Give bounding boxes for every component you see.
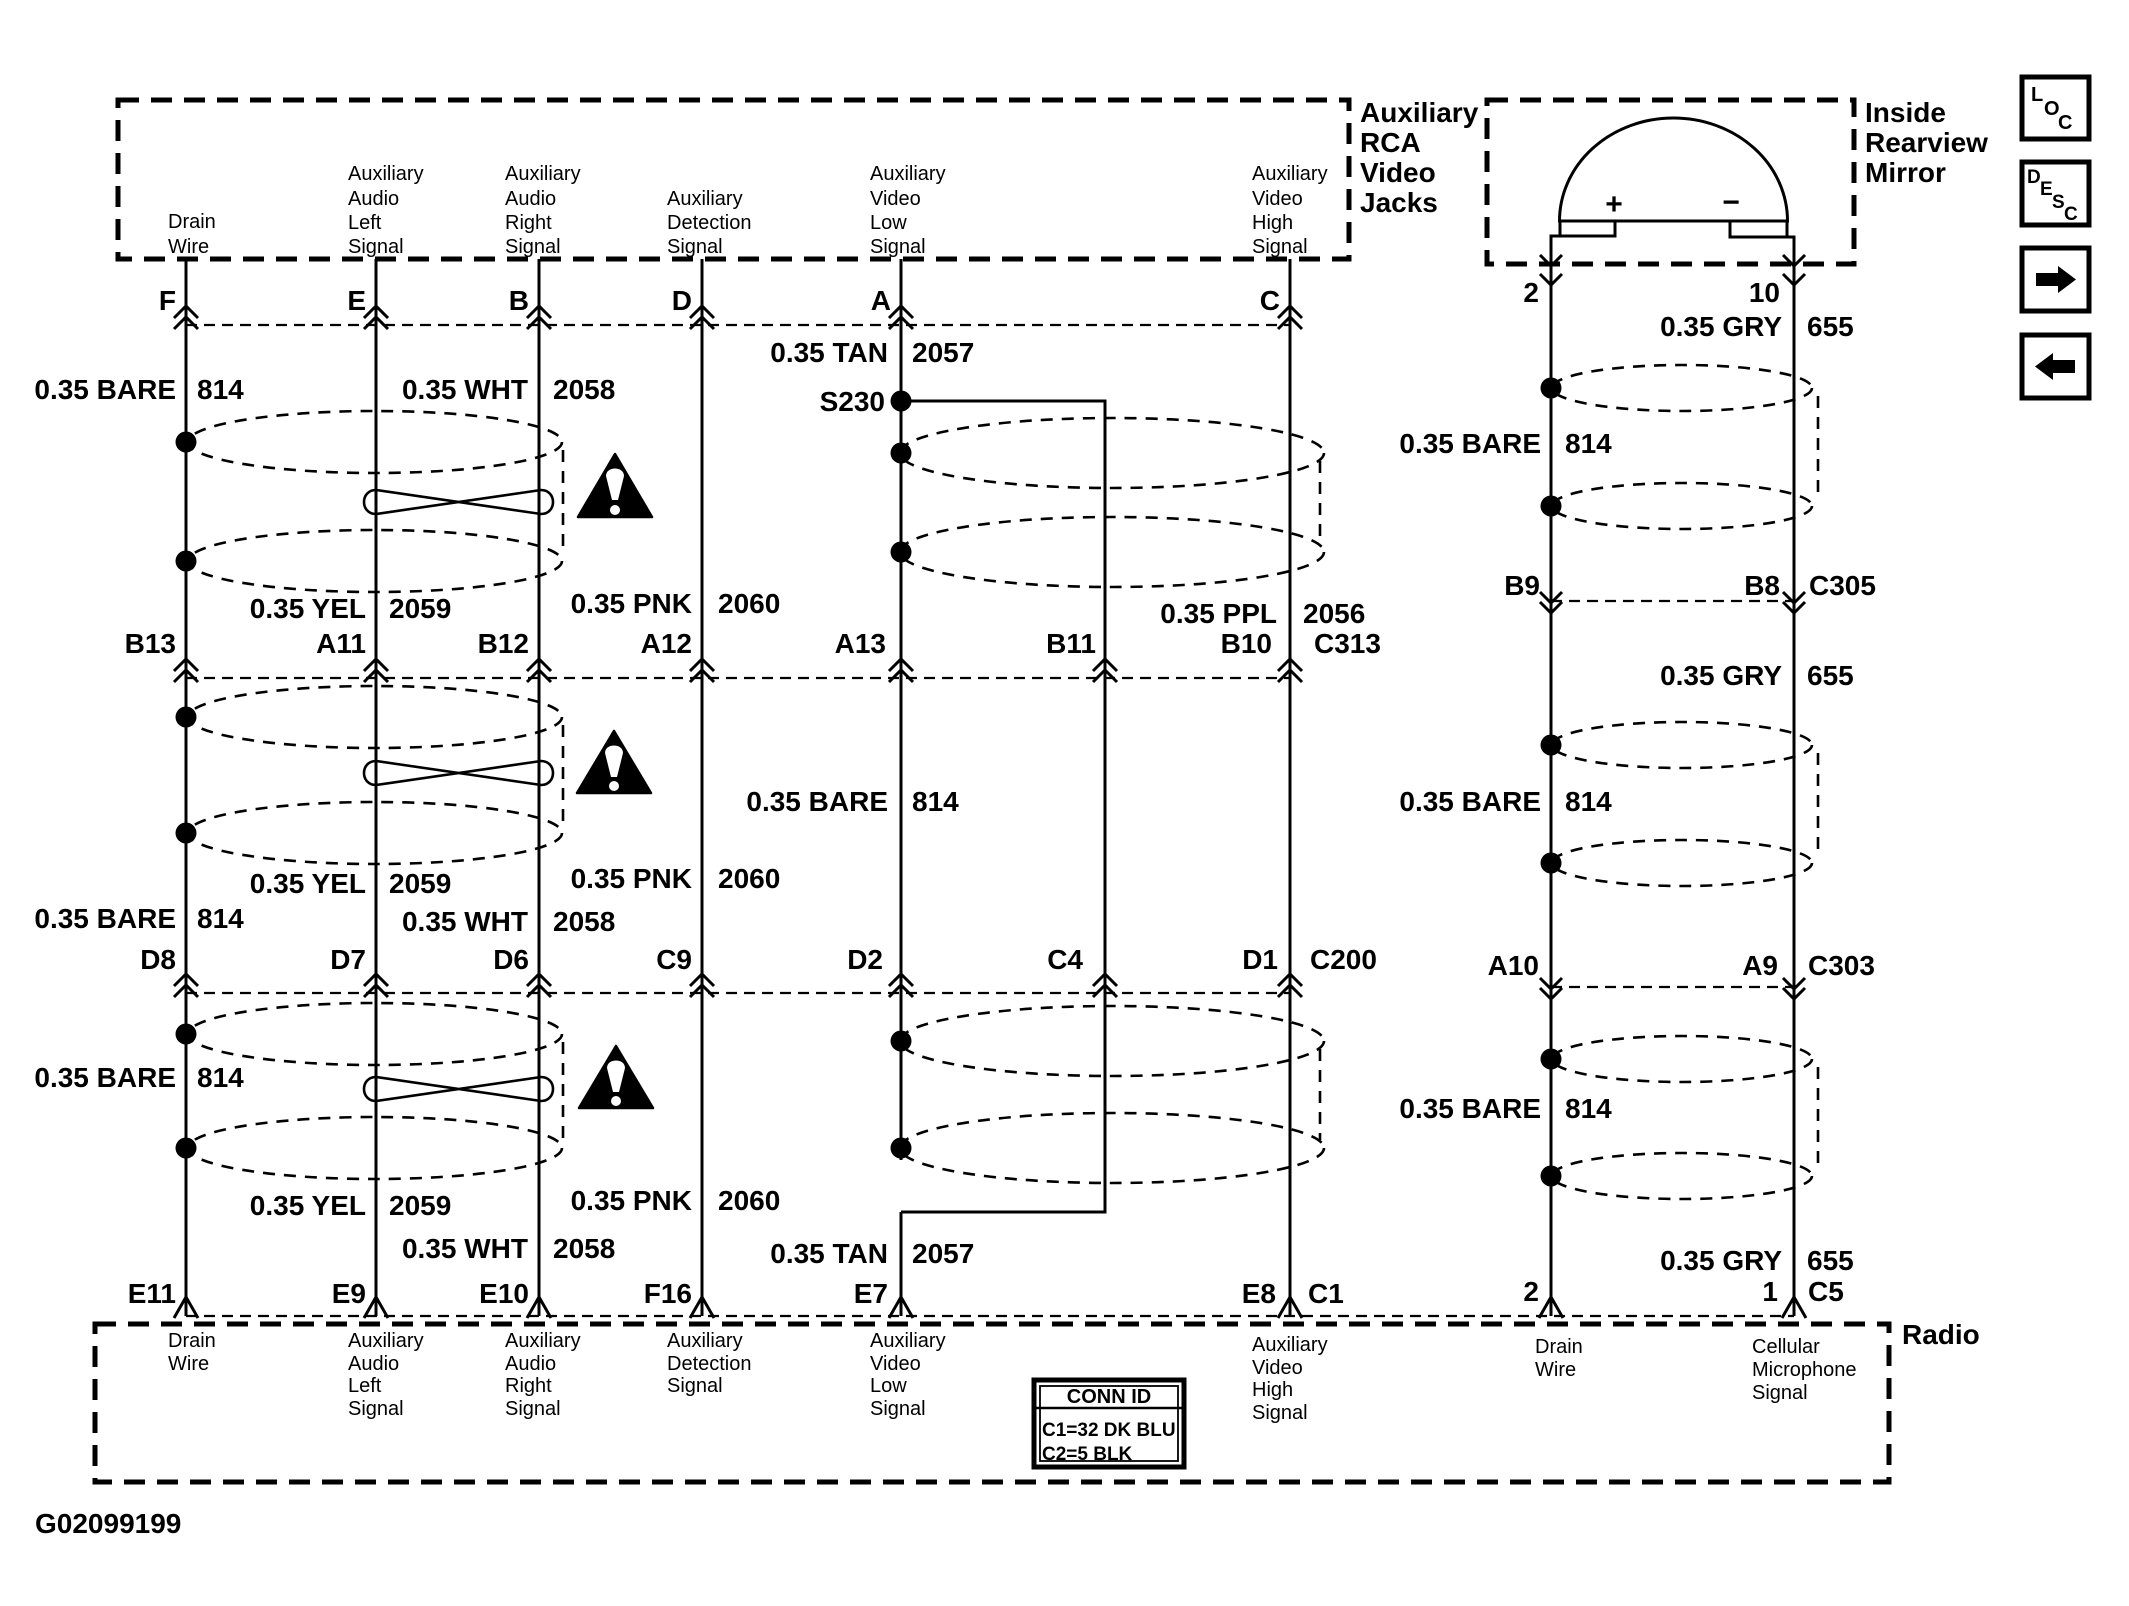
svg-text:E7: E7 xyxy=(854,1278,888,1309)
svg-text:0.35 PNK: 0.35 PNK xyxy=(571,1185,692,1216)
wire: drain wire F (0.35 BARE 814) jacks to radio xyxy=(185,259,188,1316)
connector arrows row2 xyxy=(174,659,1302,682)
connector feet radio row xyxy=(174,1297,1806,1318)
svg-text:2060: 2060 xyxy=(718,1185,780,1216)
pins E11 E9 E10 F16 E7 E8 C1 xyxy=(128,1278,1344,1309)
svg-text:C: C xyxy=(2064,204,2078,225)
svg-text:Video: Video xyxy=(1360,157,1436,188)
svg-text:S230: S230 xyxy=(820,386,885,417)
svg-text:814: 814 xyxy=(1565,1093,1612,1124)
svg-text:Detection: Detection xyxy=(667,1353,752,1375)
svg-text:CONN ID: CONN ID xyxy=(1067,1386,1151,1408)
svg-text:Audio: Audio xyxy=(505,1353,556,1375)
svg-text:2059: 2059 xyxy=(389,1190,451,1221)
svg-text:B8: B8 xyxy=(1744,570,1780,601)
svg-text:D: D xyxy=(672,285,692,316)
label 0.35 YEL 2059 row2 xyxy=(250,593,452,624)
svg-text:D6: D6 xyxy=(493,944,529,975)
label 0.35 YEL 2059 row4 xyxy=(250,1190,452,1221)
component: Inside Rearview Mirror (dashed box) xyxy=(1487,100,1854,264)
svg-text:Signal: Signal xyxy=(870,1398,926,1420)
svg-text:Signal: Signal xyxy=(1752,1382,1808,1404)
svg-text:C313: C313 xyxy=(1314,628,1381,659)
wire: auxiliary video low signal lower segment to radio E7 xyxy=(900,1212,903,1316)
svg-text:C5: C5 xyxy=(1808,1276,1844,1307)
connector: Auxiliary RCA Video Jacks (dashed box) xyxy=(118,100,1349,259)
label 0.35 GRY 655 top xyxy=(1660,311,1854,342)
label 0.35 BARE 814 top xyxy=(34,374,244,405)
svg-text:A: A xyxy=(871,285,891,316)
svg-text:A13: A13 xyxy=(835,628,886,659)
svg-text:2059: 2059 xyxy=(389,868,451,899)
svg-text:2: 2 xyxy=(1523,277,1539,308)
wire: auxiliary detection signal D (0.35 PNK 2060) xyxy=(701,259,704,1316)
svg-text:Auxiliary: Auxiliary xyxy=(348,1330,424,1352)
svg-text:G02099199: G02099199 xyxy=(35,1508,181,1539)
svg-text:0.35 WHT: 0.35 WHT xyxy=(402,1233,528,1264)
svg-text:0.35 YEL: 0.35 YEL xyxy=(250,593,366,624)
svg-text:0.35 YEL: 0.35 YEL xyxy=(250,868,366,899)
svg-text:B11: B11 xyxy=(1046,628,1096,659)
svg-text:C1=32 DK BLU: C1=32 DK BLU xyxy=(1042,1420,1176,1441)
connector row line C303 xyxy=(1551,986,1802,988)
label 0.35 WHT 2058 row3 xyxy=(402,906,615,937)
pins A10 A9 C303 xyxy=(1488,950,1875,981)
mirror lead left (pin 2) xyxy=(1551,221,1615,252)
label 0.35 WHT 2058 row4 xyxy=(402,1233,615,1264)
label 0.35 BARE 814 right 1 xyxy=(1399,428,1612,459)
svg-text:655: 655 xyxy=(1807,660,1854,691)
svg-text:2058: 2058 xyxy=(553,1233,615,1264)
svg-text:814: 814 xyxy=(197,1062,244,1093)
svg-text:0.35 YEL: 0.35 YEL xyxy=(250,1190,366,1221)
svg-text:C200: C200 xyxy=(1310,944,1377,975)
connector row line C313/C200 upper xyxy=(186,677,1290,679)
label 0.35 PNK 2060 row2 xyxy=(571,588,781,619)
svg-text:A10: A10 xyxy=(1488,950,1539,981)
svg-text:Cellular: Cellular xyxy=(1752,1336,1820,1358)
label 0.35 TAN 2057 top xyxy=(770,337,974,368)
svg-text:Audio: Audio xyxy=(348,188,399,210)
label 0.35 BARE 814 middle xyxy=(746,786,959,817)
connector arrows C303 row xyxy=(1540,978,1805,999)
connector row line C305 xyxy=(1551,600,1802,602)
svg-text:Jacks: Jacks xyxy=(1360,187,1438,218)
svg-text:Video: Video xyxy=(1252,1357,1303,1379)
label: Radio xyxy=(1902,1319,1980,1350)
svg-text:Auxiliary: Auxiliary xyxy=(1360,97,1479,128)
pin letters F E B D A C xyxy=(159,285,1280,316)
svg-text:+: + xyxy=(1605,188,1623,221)
label 0.35 GRY 655 mid xyxy=(1660,660,1854,691)
shield: mirror cable group 3 xyxy=(1541,1036,1819,1199)
twisted pair symbol group 1 xyxy=(364,490,553,514)
svg-text:814: 814 xyxy=(1565,428,1612,459)
svg-text:Signal: Signal xyxy=(505,1398,561,1420)
label: Auxiliary RCA Video Jacks xyxy=(1360,97,1479,218)
svg-text:B13: B13 xyxy=(125,628,176,659)
svg-text:0.35 PNK: 0.35 PNK xyxy=(571,863,692,894)
label 0.35 YEL 2059 row3 xyxy=(250,868,452,899)
svg-text:C4: C4 xyxy=(1047,944,1083,975)
wire: auxiliary video high signal C (0.35 PPL 2056) xyxy=(1289,259,1292,1316)
connector row line radio C1/C5 xyxy=(186,1315,1794,1317)
shield: audio pair group 1 xyxy=(176,411,564,592)
svg-text:Low: Low xyxy=(870,212,907,234)
svg-text:Auxiliary: Auxiliary xyxy=(667,1330,743,1352)
svg-text:C: C xyxy=(1260,285,1280,316)
svg-text:B12: B12 xyxy=(478,628,529,659)
svg-text:0.35 BARE: 0.35 BARE xyxy=(1399,428,1541,459)
icon DESC xyxy=(2022,162,2089,225)
svg-text:High: High xyxy=(1252,212,1293,234)
svg-text:E8: E8 xyxy=(1242,1278,1276,1309)
svg-text:Right: Right xyxy=(505,1375,552,1397)
svg-text:Auxiliary: Auxiliary xyxy=(348,163,424,185)
svg-text:−: − xyxy=(1722,186,1740,219)
svg-text:0.35 WHT: 0.35 WHT xyxy=(402,906,528,937)
svg-text:2056: 2056 xyxy=(1303,598,1365,629)
svg-text:10: 10 xyxy=(1749,277,1780,308)
svg-text:Signal: Signal xyxy=(505,236,561,258)
svg-text:0.35 GRY: 0.35 GRY xyxy=(1660,660,1782,691)
svg-text:Auxiliary: Auxiliary xyxy=(870,163,946,185)
svg-text:2058: 2058 xyxy=(553,906,615,937)
svg-text:Signal: Signal xyxy=(1252,236,1308,258)
label 0.35 PNK 2060 row3 xyxy=(571,863,781,894)
svg-text:Rearview: Rearview xyxy=(1865,127,1988,158)
svg-text:E: E xyxy=(2040,179,2053,200)
wire: mirror drain wire 2 (0.35 BARE 814) xyxy=(1550,236,1553,1316)
svg-text:Signal: Signal xyxy=(667,236,723,258)
svg-text:Left: Left xyxy=(348,212,382,234)
svg-text:0.35 TAN: 0.35 TAN xyxy=(770,337,888,368)
svg-text:Drain: Drain xyxy=(168,1330,216,1352)
svg-text:2057: 2057 xyxy=(912,1238,974,1269)
svg-text:Drain: Drain xyxy=(1535,1336,1583,1358)
svg-text:C303: C303 xyxy=(1808,950,1875,981)
label 0.35 GRY 655 bottom xyxy=(1660,1245,1854,1276)
pins D8 D7 D6 C9 D2 C4 D1 C200 xyxy=(140,944,1377,975)
svg-text:Microphone: Microphone xyxy=(1752,1359,1857,1381)
label 0.35 PPL 2056 xyxy=(1160,598,1365,629)
svg-text:E: E xyxy=(347,285,366,316)
svg-text:D1: D1 xyxy=(1242,944,1278,975)
svg-text:High: High xyxy=(1252,1379,1293,1401)
svg-text:C305: C305 xyxy=(1809,570,1876,601)
svg-text:S: S xyxy=(2052,192,2065,213)
svg-text:Audio: Audio xyxy=(505,188,556,210)
label 0.35 TAN 2057 bottom xyxy=(770,1238,974,1269)
twisted pair symbol group 3 xyxy=(364,1077,553,1101)
svg-text:Auxiliary: Auxiliary xyxy=(667,188,743,210)
pins B9 B8 C305 xyxy=(1504,570,1876,601)
pins 2 1 C5 xyxy=(1523,1276,1843,1307)
svg-text:Signal: Signal xyxy=(348,236,404,258)
shield: video pair upper xyxy=(891,418,1325,587)
svg-text:A9: A9 xyxy=(1742,950,1778,981)
svg-text:Auxiliary: Auxiliary xyxy=(1252,1334,1328,1356)
svg-text:Low: Low xyxy=(870,1375,907,1397)
shield: audio pair group 2 xyxy=(176,686,564,864)
splice S230 xyxy=(820,386,912,417)
svg-text:E11: E11 xyxy=(128,1278,176,1309)
icon arrow left xyxy=(2022,335,2089,398)
svg-text:0.35 BARE: 0.35 BARE xyxy=(34,903,176,934)
svg-text:0.35 BARE: 0.35 BARE xyxy=(746,786,888,817)
svg-text:Auxiliary: Auxiliary xyxy=(870,1330,946,1352)
svg-text:1: 1 xyxy=(1762,1276,1778,1307)
svg-text:A11: A11 xyxy=(316,628,366,659)
svg-text:C9: C9 xyxy=(656,944,692,975)
connector arrows C305 row xyxy=(1540,592,1805,613)
svg-text:Audio: Audio xyxy=(348,1353,399,1375)
svg-text:Signal: Signal xyxy=(1252,1402,1308,1424)
mirror dome symbol xyxy=(1551,118,1794,252)
svg-text:B10: B10 xyxy=(1221,628,1272,659)
pins B13 A11 B12 A12 A13 B11 B10 C313 xyxy=(125,628,1381,659)
svg-text:Radio: Radio xyxy=(1902,1319,1980,1350)
label 0.35 BARE 814 row3 left xyxy=(34,903,244,934)
svg-text:B9: B9 xyxy=(1504,570,1540,601)
svg-text:Wire: Wire xyxy=(168,1353,209,1375)
svg-text:L: L xyxy=(2031,84,2043,106)
pin 2 and 10 at mirror xyxy=(1523,277,1780,308)
twisted pair symbol group 2 xyxy=(364,761,553,785)
shield: mirror cable group 2 xyxy=(1541,722,1819,886)
svg-text:0.35 BARE: 0.35 BARE xyxy=(34,1062,176,1093)
svg-text:0.35 BARE: 0.35 BARE xyxy=(34,374,176,405)
label: Inside Rearview Mirror xyxy=(1865,97,1988,188)
connector arrows row1 xyxy=(174,306,1302,329)
svg-text:C2=5 BLK: C2=5 BLK xyxy=(1042,1444,1133,1465)
svg-text:C: C xyxy=(2058,112,2072,134)
label 0.35 BARE 814 row4 left xyxy=(34,1062,244,1093)
svg-text:F16: F16 xyxy=(644,1278,692,1309)
warning triangle 2 xyxy=(577,731,651,793)
svg-text:Video: Video xyxy=(870,188,921,210)
svg-text:Mirror: Mirror xyxy=(1865,157,1946,188)
svg-text:0.35 GRY: 0.35 GRY xyxy=(1660,311,1782,342)
CONN ID table xyxy=(1034,1380,1184,1467)
connector arrows row3 xyxy=(174,974,1302,997)
svg-text:Right: Right xyxy=(505,212,552,234)
svg-text:2060: 2060 xyxy=(718,588,780,619)
svg-text:Signal: Signal xyxy=(870,236,926,258)
svg-text:Wire: Wire xyxy=(168,236,209,258)
svg-text:Auxiliary: Auxiliary xyxy=(1252,163,1328,185)
svg-text:D7: D7 xyxy=(330,944,366,975)
svg-text:655: 655 xyxy=(1807,311,1854,342)
wire: auxiliary video low signal A (0.35 TAN 2057) upper segment xyxy=(900,259,903,1160)
svg-text:Wire: Wire xyxy=(1535,1359,1576,1381)
figure number G02099199 xyxy=(35,1508,181,1539)
svg-text:0.35 WHT: 0.35 WHT xyxy=(402,374,528,405)
icon arrow right xyxy=(2022,248,2089,311)
svg-text:2059: 2059 xyxy=(389,593,451,624)
svg-text:814: 814 xyxy=(912,786,959,817)
label 0.35 BARE 814 right 2 xyxy=(1399,786,1612,817)
connector: Radio (dashed box) xyxy=(95,1324,1889,1482)
svg-text:C1: C1 xyxy=(1308,1278,1344,1309)
connector row line C1 top (F..C) xyxy=(186,324,1290,326)
wire: auxiliary audio right signal B (0.35 WHT 2058) xyxy=(538,259,541,1316)
svg-text:Auxiliary: Auxiliary xyxy=(505,1330,581,1352)
svg-text:Video: Video xyxy=(1252,188,1303,210)
connector arrows mirror box bottom xyxy=(1540,255,1805,285)
svg-text:655: 655 xyxy=(1807,1245,1854,1276)
svg-text:Inside: Inside xyxy=(1865,97,1946,128)
svg-text:0.35 PPL: 0.35 PPL xyxy=(1160,598,1277,629)
label 0.35 BARE 814 right 3 xyxy=(1399,1093,1612,1124)
svg-text:2060: 2060 xyxy=(718,863,780,894)
svg-text:RCA: RCA xyxy=(1360,127,1421,158)
warning triangle 1 xyxy=(578,454,652,517)
svg-text:D2: D2 xyxy=(847,944,883,975)
wire: auxiliary audio left signal E (0.35 YEL 2059) xyxy=(375,259,378,1316)
svg-text:Left: Left xyxy=(348,1375,382,1397)
svg-text:E9: E9 xyxy=(332,1278,366,1309)
svg-text:0.35 PNK: 0.35 PNK xyxy=(571,588,692,619)
svg-text:Video: Video xyxy=(870,1353,921,1375)
warning triangle 3 xyxy=(579,1046,653,1108)
svg-text:Signal: Signal xyxy=(667,1375,723,1397)
shield: audio pair group 3 xyxy=(176,1003,564,1179)
svg-text:2: 2 xyxy=(1523,1276,1539,1307)
icon LOC xyxy=(2022,77,2089,139)
svg-text:814: 814 xyxy=(1565,786,1612,817)
svg-text:2058: 2058 xyxy=(553,374,615,405)
svg-text:814: 814 xyxy=(197,903,244,934)
svg-text:D8: D8 xyxy=(140,944,176,975)
label 0.35 PNK 2060 row4 xyxy=(571,1185,781,1216)
label 0.35 WHT 2058 top xyxy=(402,374,615,405)
mirror lead right (pin 10) xyxy=(1730,221,1794,252)
svg-text:0.35 TAN: 0.35 TAN xyxy=(770,1238,888,1269)
svg-text:2057: 2057 xyxy=(912,337,974,368)
svg-text:Drain: Drain xyxy=(168,211,216,233)
svg-text:0.35 GRY: 0.35 GRY xyxy=(1660,1245,1782,1276)
shield: video pair lower xyxy=(891,1006,1325,1183)
wire: cellular microphone signal 10 (0.35 GRY 655) xyxy=(1793,237,1796,1316)
wire: S230 branch through C4 xyxy=(901,401,1105,1212)
connector row line C200 lower xyxy=(186,992,1290,994)
svg-text:Detection: Detection xyxy=(667,212,752,234)
svg-text:B: B xyxy=(509,285,529,316)
svg-text:D: D xyxy=(2027,167,2041,188)
svg-text:Auxiliary: Auxiliary xyxy=(505,163,581,185)
svg-text:0.35 BARE: 0.35 BARE xyxy=(1399,1093,1541,1124)
svg-text:A12: A12 xyxy=(641,628,692,659)
svg-text:814: 814 xyxy=(197,374,244,405)
svg-text:0.35 BARE: 0.35 BARE xyxy=(1399,786,1541,817)
shield: mirror cable group 1 xyxy=(1541,365,1819,529)
svg-text:E10: E10 xyxy=(479,1278,529,1309)
svg-text:Signal: Signal xyxy=(348,1398,404,1420)
svg-text:F: F xyxy=(159,285,176,316)
